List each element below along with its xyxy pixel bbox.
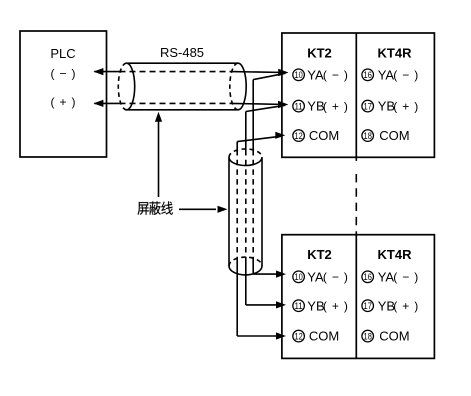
wire B dashed inside cable (120, 102, 232, 104)
KT2/KT4R lower terminal 17 label (378, 298, 419, 313)
svg-text:PLC: PLC (50, 46, 75, 61)
KT2/KT4R lower terminal 11 label (307, 298, 348, 313)
svg-text:(+): (+) (323, 299, 348, 313)
svg-text:(+): (+) (393, 100, 418, 114)
svg-text:COM: COM (379, 329, 409, 344)
KT2/KT4R lower terminal 18 circled pin number (362, 330, 374, 342)
pointer arrow right to vertical cable (179, 206, 228, 213)
svg-text:12: 12 (294, 331, 302, 342)
KT2/KT4R upper terminal 12 circled pin number (293, 130, 305, 142)
wire 1 diagonal to top box terminal with arrowhead (237, 132, 285, 142)
wire A dashed inside cable (120, 71, 232, 73)
KT2/KT4R upper terminal 16 circled pin number (362, 69, 374, 81)
KT2/KT4R lower terminal 17 circled pin number (362, 300, 374, 312)
wire 3 vertical run (YA wire (right)) (252, 80, 254, 275)
svg-text:COM: COM (379, 128, 409, 143)
vertical cylinder top end cap (229, 149, 262, 166)
wire B (+) to PLC with arrowhead (93, 100, 119, 107)
svg-text:18: 18 (364, 331, 372, 342)
svg-text:KT2: KT2 (307, 46, 332, 61)
KT2/KT4R upper terminal 18 circled pin number (362, 130, 374, 142)
KT2/KT4R lower terminal 10 label (307, 269, 348, 284)
svg-text:COM: COM (309, 128, 339, 143)
wire 3 horizontal to bottom box terminal with arrowhead (253, 271, 286, 278)
horizontal cylinder right end cap (230, 63, 246, 110)
svg-text:KT4R: KT4R (378, 46, 413, 61)
KT2/KT4R upper terminal 17 label (378, 99, 419, 114)
KT2/KT4R lower terminal 16 label (378, 269, 419, 284)
PLC terminal (+) (51, 95, 76, 109)
svg-text:(−): (−) (323, 270, 348, 284)
svg-text:10: 10 (294, 70, 302, 81)
svg-text:KT2: KT2 (307, 247, 332, 262)
KT2/KT4R upper module box (282, 33, 435, 157)
KT2/KT4R lower terminal 10 circled pin number (293, 271, 305, 283)
svg-text:11: 11 (294, 101, 302, 112)
PLC box (20, 31, 107, 157)
svg-text:KT4R: KT4R (378, 247, 413, 262)
PLC terminal (-) (51, 66, 76, 80)
KT2/KT4R lower terminal 16 circled pin number (362, 271, 374, 283)
KT2/KT4R lower divider (355, 235, 357, 359)
pointer arrow up to horizontal cable (155, 112, 162, 197)
KT2/KT4R lower terminal 11 circled pin number (293, 300, 305, 312)
wire 2 vertical run (YB wire (middle)) (245, 112, 247, 305)
KT2/KT4R upper terminal 10 label (307, 67, 348, 82)
wire A to terminal 10 with arrowhead (232, 69, 289, 76)
svg-text:16: 16 (364, 70, 372, 81)
horizontal cylinder left end cap (118, 63, 134, 110)
svg-text:(+): (+) (323, 100, 348, 114)
wire 1 vertical run (COM wire (left)) (236, 142, 238, 336)
svg-text:(−): (−) (323, 68, 348, 82)
shielded cable (horizontal cylinder) body (127, 63, 239, 110)
vertical cylinder bottom end cap (229, 257, 262, 275)
svg-text:16: 16 (364, 272, 372, 283)
svg-text:(+): (+) (393, 299, 418, 313)
KT2/KT4R upper terminal 10 circled pin number (293, 69, 305, 81)
wire 2 diagonal to top box terminal with arrowhead (246, 101, 288, 112)
label "shielded wire" (pin-bi-xian) drawn glyphs (137, 201, 172, 214)
svg-text:10: 10 (294, 272, 302, 283)
wire 2 horizontal to bottom box terminal with arrowhead (246, 301, 286, 308)
svg-text:RS-485: RS-485 (160, 45, 204, 60)
wire A (-) to PLC with arrowhead (93, 68, 119, 75)
dashed divider link between module boxes (355, 157, 357, 234)
svg-text:YA: YA (378, 67, 395, 82)
KT2/KT4R upper terminal 11 circled pin number (293, 100, 305, 112)
svg-text:11: 11 (294, 301, 302, 312)
KT2/KT4R upper terminal 11 label (307, 99, 348, 114)
KT2/KT4R upper terminal 16 label (378, 67, 419, 82)
svg-text:COM: COM (309, 329, 339, 344)
wire 1 horizontal to bottom box terminal with arrowhead (237, 332, 286, 339)
wire 3 diagonal to top box terminal with arrowhead (253, 69, 288, 80)
svg-text:YA: YA (307, 67, 324, 82)
svg-text:12: 12 (294, 131, 302, 142)
KT2/KT4R lower module box (282, 235, 435, 359)
svg-text:17: 17 (364, 301, 372, 312)
KT2/KT4R upper divider (355, 33, 357, 157)
svg-text:YA: YA (378, 269, 395, 284)
svg-text:(+): (+) (51, 95, 76, 109)
svg-text:18: 18 (364, 131, 372, 142)
svg-text:YA: YA (307, 269, 324, 284)
svg-text:(−): (−) (393, 68, 418, 82)
shielded cable (vertical cylinder) body (229, 157, 262, 266)
wire B to terminal 11 with arrowhead (232, 101, 289, 108)
KT2/KT4R lower terminal 12 circled pin number (293, 330, 305, 342)
svg-text:(−): (−) (51, 66, 76, 80)
KT2/KT4R upper terminal 17 circled pin number (362, 100, 374, 112)
svg-text:(−): (−) (393, 270, 418, 284)
svg-text:17: 17 (364, 101, 372, 112)
